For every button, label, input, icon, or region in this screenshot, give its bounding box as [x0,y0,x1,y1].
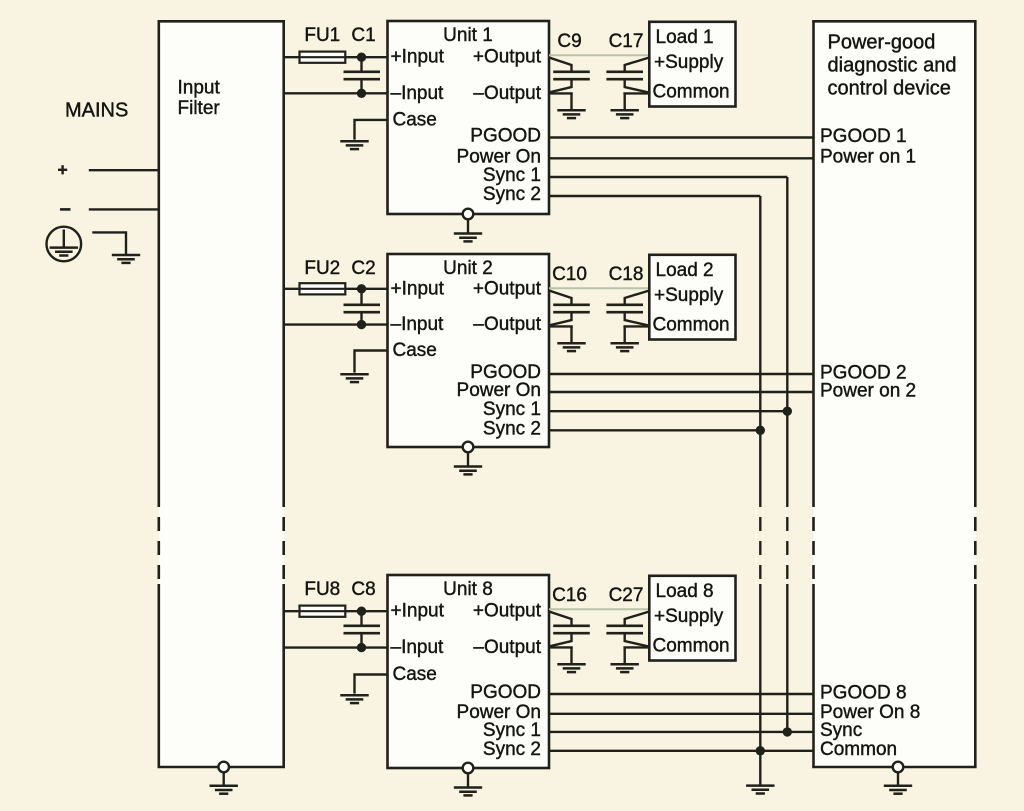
svg-text:+Input: +Input [391,47,445,68]
svg-text:Sync: Sync [820,720,862,741]
svg-text:+Supply: +Supply [654,606,724,627]
svg-text:Case: Case [393,664,437,685]
svg-text:Common: Common [653,636,730,657]
svg-text:Sync 2: Sync 2 [483,739,541,760]
svg-text:C9: C9 [557,31,581,52]
svg-text:–Input: –Input [391,83,445,104]
svg-text:+Supply: +Supply [654,52,724,73]
svg-text:PGOOD: PGOOD [470,682,541,703]
svg-text:FU8: FU8 [304,579,340,600]
svg-text:Sync 2: Sync 2 [483,184,541,205]
svg-text:Case: Case [393,340,437,361]
svg-text:C27: C27 [609,585,644,606]
svg-text:Common: Common [653,82,730,103]
svg-text:C1: C1 [351,25,375,46]
svg-text:Power On: Power On [457,380,541,401]
svg-text:control device: control device [828,78,951,100]
svg-text:+Input: +Input [391,601,445,622]
svg-text:Unit 8: Unit 8 [443,579,493,600]
svg-text:Sync 1: Sync 1 [483,399,541,420]
svg-text:Unit 2: Unit 2 [443,258,493,279]
svg-text:C2: C2 [351,258,375,279]
svg-text:C18: C18 [609,264,644,285]
svg-text:PGOOD: PGOOD [470,126,541,147]
svg-text:Common: Common [653,315,730,336]
svg-text:PGOOD 8: PGOOD 8 [820,682,907,703]
svg-text:–Input: –Input [391,637,445,658]
svg-text:Load 8: Load 8 [656,581,714,602]
svg-text:Sync 1: Sync 1 [483,720,541,741]
svg-text:MAINS: MAINS [65,100,128,122]
svg-text:+Output: +Output [473,601,542,622]
svg-text:Power-good: Power-good [828,32,936,54]
svg-text:Load 2: Load 2 [656,260,714,281]
svg-text:FU2: FU2 [304,258,340,279]
svg-text:diagnostic and: diagnostic and [828,55,957,77]
svg-text:–Output: –Output [473,83,541,104]
svg-text:–Output: –Output [473,314,541,335]
svg-text:–Output: –Output [473,637,541,658]
svg-text:+Output: +Output [473,47,542,68]
svg-text:Sync 1: Sync 1 [483,165,541,186]
svg-text:+Input: +Input [391,278,445,299]
svg-text:Sync 2: Sync 2 [483,418,541,439]
svg-text:Filter: Filter [178,98,221,119]
svg-text:C8: C8 [351,579,375,600]
svg-text:Power on 1: Power on 1 [820,147,916,168]
svg-text:PGOOD 1: PGOOD 1 [820,126,907,147]
svg-text:Load 1: Load 1 [656,27,714,48]
svg-text:C10: C10 [552,264,587,285]
svg-text:+Supply: +Supply [654,285,724,306]
svg-text:Case: Case [393,109,437,130]
svg-text:Unit 1: Unit 1 [443,25,493,46]
svg-text:–Input: –Input [391,314,445,335]
svg-text:C16: C16 [552,585,587,606]
svg-text:FU1: FU1 [304,25,340,46]
svg-text:+Output: +Output [473,278,542,299]
svg-text:Input: Input [178,78,221,99]
svg-text:Common: Common [820,739,897,760]
svg-text:Power on 2: Power on 2 [820,380,916,401]
svg-text:C17: C17 [609,31,644,52]
